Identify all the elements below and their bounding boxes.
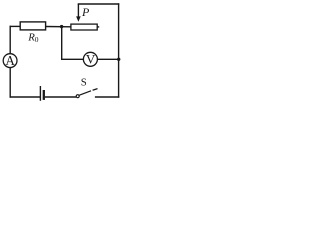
wire: right rail	[118, 3, 120, 97]
rheostat P right stub	[97, 26, 99, 28]
svg-text:V: V	[86, 52, 96, 67]
wire: voltmeter branch vertical	[61, 27, 63, 60]
voltmeter V1	[83, 52, 97, 67]
wire: voltmeter branch horizontal left	[61, 58, 83, 60]
switch S blade	[79, 91, 91, 95]
wire: voltmeter to right rail	[97, 58, 118, 60]
rheostat P body	[71, 24, 97, 30]
svg-text:S: S	[81, 77, 87, 89]
wire: bottom from left rail to battery	[10, 96, 41, 98]
wire: left rail above ammeter	[9, 26, 11, 54]
rheostat wiper arrow	[76, 4, 81, 22]
wire: left rail below ammeter	[9, 67, 11, 97]
node junction dot at voltmeter branch on top wire	[60, 25, 63, 28]
wire: battery to switch	[45, 96, 76, 98]
battery cell	[40, 86, 43, 101]
wire: switch to right rail bottom	[95, 96, 119, 98]
switch S contact tip	[93, 89, 98, 91]
wire: top-left horizontal from left rail to R0	[10, 25, 21, 27]
svg-text:R0: R0	[27, 32, 39, 45]
wire: R0 to rheostat	[46, 26, 71, 28]
svg-text:P: P	[81, 5, 90, 19]
resistor R0	[20, 22, 45, 30]
node junction dot on right rail	[117, 58, 120, 61]
svg-text:A: A	[5, 53, 15, 68]
switch S pivot	[76, 95, 79, 98]
ammeter A1	[3, 53, 17, 68]
wire: top wire from wiper to right rail	[78, 3, 120, 5]
